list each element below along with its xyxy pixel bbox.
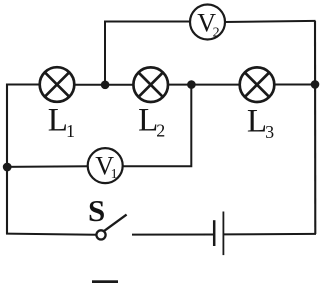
battery: positive plate (long, thin): [222, 212, 224, 256]
wire: V2 branch riser from node A: [105, 22, 191, 85]
wire: switch to battery negative plate: [132, 234, 214, 236]
wire: V1 branch from left rail node D: [6, 165, 89, 168]
wire: L1 to L2: [72, 84, 136, 86]
switch S: [96, 215, 126, 240]
svg-text:S: S: [88, 193, 105, 228]
label L3: [247, 103, 274, 142]
wire: L2 to L3: [166, 84, 242, 86]
battery: negative plate (short, thick): [213, 220, 216, 246]
voltmeter V2: [190, 5, 225, 41]
lamp L1: [40, 67, 75, 102]
lamp L3: [240, 67, 275, 102]
label L1: [48, 102, 75, 140]
node D: junction left rail / V1 branch: [3, 163, 12, 172]
wire: main line, left corner to L1: [6, 84, 42, 86]
wire: bottom rail, left corner to switch: [6, 234, 96, 235]
wire: L3 to right rail: [272, 84, 316, 86]
label S: [88, 193, 105, 228]
wire: battery positive plate to right corner: [224, 233, 316, 236]
label L2: [138, 102, 165, 140]
wire: V2 to right rail: [224, 21, 316, 22]
wire: right vertical rail: [314, 21, 316, 234]
lamp L2: [133, 67, 168, 102]
node C: junction L3 wire / right rail: [311, 80, 320, 89]
partial caption glyph at bottom edge: [92, 280, 118, 283]
wire: V1 to node B riser: [121, 85, 191, 167]
node A: junction L1-L2 / V2 riser: [101, 81, 110, 90]
wire: left vertical rail: [6, 84, 8, 235]
node B: junction L2-L3 / V1 riser: [187, 80, 196, 89]
voltmeter V1: [88, 148, 123, 183]
